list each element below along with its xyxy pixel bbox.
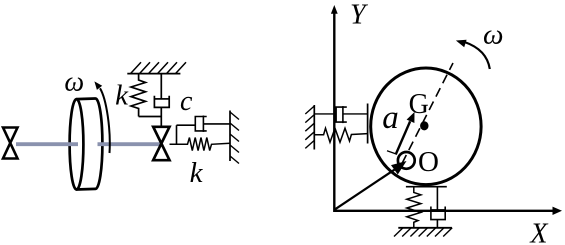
bottom bar (406, 186, 447, 188)
node line top branch (176, 125, 178, 144)
svg-text:O: O (418, 146, 439, 178)
dashed line through O and G (402, 63, 453, 164)
ceiling (127, 73, 180, 75)
shaft left segment (16, 142, 78, 146)
bottom spring (407, 187, 421, 228)
a arrow (396, 121, 410, 154)
svg-text:a: a (382, 100, 399, 136)
svg-text:k: k (190, 157, 204, 189)
left attach bar (367, 104, 369, 144)
bottom damper (436, 187, 438, 211)
bearing L2 (153, 127, 169, 160)
svg-text:G: G (409, 89, 429, 120)
svg-text:c: c (180, 86, 193, 117)
Y axis (333, 13, 335, 213)
a arrow stub (387, 151, 396, 154)
svg-text:X: X (529, 219, 548, 245)
left spring branch (314, 128, 367, 142)
X axis (334, 210, 553, 212)
connector spring-damper bottom (139, 116, 162, 118)
left wall (right diagram) (313, 105, 315, 150)
omega arrow right (465, 42, 490, 69)
damper c vertical (160, 74, 162, 99)
svg-text:k: k (115, 80, 129, 112)
rotor circle (371, 68, 481, 185)
shaft right segment (98, 142, 161, 146)
damper right branch (195, 117, 206, 131)
O marker (398, 152, 415, 169)
svg-text:ω: ω (64, 67, 84, 98)
curved arrow left (100, 88, 110, 153)
bearing L1 (3, 128, 18, 159)
left damper branch (314, 113, 336, 115)
G dot (420, 121, 428, 130)
ground (398, 227, 452, 229)
spring k horizontal (170, 138, 231, 151)
svg-text:ω: ω (483, 18, 503, 50)
spring k vertical (131, 74, 146, 117)
origin arrow to O (334, 169, 395, 209)
wall right (left diagram) (229, 111, 231, 162)
disk (rotor cylinder) (70, 99, 103, 190)
